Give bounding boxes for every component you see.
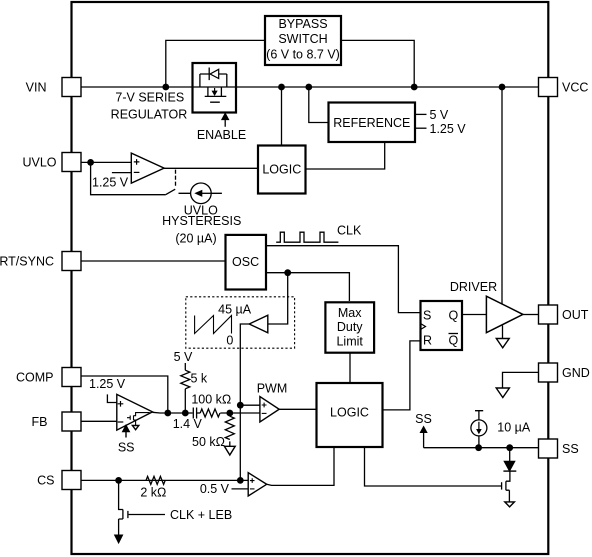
wire buffer output down to comparators: [240, 324, 249, 480]
svg-text:OSC: OSC: [232, 255, 259, 269]
pin OUT: [539, 305, 589, 324]
node SS-source: [475, 444, 482, 451]
svg-text:UVLO: UVLO: [22, 156, 56, 170]
driver amp: [486, 296, 523, 333]
error amplifier U3: [117, 394, 153, 430]
wire PWM output to logic: [279, 408, 316, 410]
svg-text:BYPASS: BYPASS: [278, 17, 327, 31]
sawtooth waveform: [195, 316, 232, 334]
wire 100k to PWM minus: [220, 412, 260, 414]
svg-text:5 V: 5 V: [174, 350, 193, 364]
svg-text:7-V SERIES: 7-V SERIES: [115, 91, 184, 105]
IC boundary: [72, 2, 549, 554]
svg-text:0: 0: [226, 333, 233, 347]
svg-text:ENABLE: ENABLE: [197, 128, 246, 142]
svg-text:LOGIC: LOGIC: [262, 163, 301, 177]
uvlo comparator U2: [131, 153, 164, 183]
ENABLE arrow: [222, 114, 228, 127]
svg-text:R: R: [423, 334, 432, 348]
SS arrow up: [421, 427, 427, 448]
wire flip-flop R input from logic: [383, 341, 421, 410]
node COMP join: [164, 410, 171, 417]
wire logic to SS discharge gate: [365, 447, 502, 486]
wire rail down to logic top: [281, 87, 283, 146]
wire UVLO pin to comparator: [81, 161, 131, 163]
compensation capacitor: [193, 408, 196, 419]
wire Q to driver: [462, 314, 486, 316]
svg-text:HYSTERESIS: HYSTERESIS: [162, 214, 241, 228]
dashed ramp-generator box: [186, 297, 295, 348]
wire GND pin to ground: [503, 372, 539, 388]
svg-text:Q: Q: [449, 334, 459, 348]
SS discharge mosfet: [502, 471, 510, 502]
chip ground symbol: [496, 388, 509, 398]
svg-text:CLK + LEB: CLK + LEB: [170, 508, 232, 522]
svg-text:1.25 V: 1.25 V: [430, 122, 467, 136]
svg-text:Q: Q: [449, 309, 459, 323]
hysteresis current source circle: [191, 183, 212, 204]
bypass switch block: [265, 16, 341, 65]
wire cap to 100k: [197, 412, 201, 414]
stub 1.25V to UVLO comparator minus: [112, 172, 131, 174]
wire 1.25V to error amp plus: [107, 394, 116, 402]
resistor 5 k: [181, 370, 190, 389]
overcurrent comparator: [248, 473, 267, 496]
svg-text:VCC: VCC: [562, 81, 588, 95]
wire reference bottom to logic right: [306, 142, 385, 169]
node CS-leb: [115, 477, 122, 484]
svg-text:5 V: 5 V: [430, 108, 449, 122]
node ramp-PWM: [237, 402, 244, 409]
wire source to SS line: [478, 436, 480, 448]
pin SS: [539, 439, 579, 458]
clk leb fet gate: [128, 511, 165, 518]
resistor 2 kOhm: [146, 476, 165, 484]
enable pass device internals: [200, 68, 227, 103]
pin RT/SYNC: [0, 252, 81, 271]
SR flip-flop U-FF: [421, 301, 463, 350]
svg-text:SS: SS: [562, 442, 579, 456]
max duty limit block: [325, 302, 374, 352]
resistor 100 kOhm: [200, 409, 220, 417]
SS current source 10uA: [471, 420, 487, 436]
wire 5V to 5k resistor: [184, 363, 186, 370]
svg-text:SS: SS: [415, 412, 432, 426]
svg-text:PWM: PWM: [257, 382, 288, 396]
svg-text:RT/SYNC: RT/SYNC: [0, 255, 54, 269]
oscillator block OSC: [226, 235, 267, 290]
wire RT/SYNC to OSC: [81, 260, 226, 262]
pin CS: [37, 471, 81, 490]
wire uvlo comparator output to logic: [164, 167, 258, 169]
wire CS node down to leb fet: [119, 480, 123, 536]
svg-text:Duty: Duty: [337, 320, 363, 334]
wire VIN rail to VCC: [81, 86, 539, 88]
SS clamp transistor on error amp: [127, 413, 150, 430]
wire VCC rail down to driver: [501, 87, 503, 305]
wire UVLO node to hysteresis switch: [91, 162, 166, 194]
svg-text:S: S: [423, 309, 431, 323]
svg-text:OUT: OUT: [562, 308, 589, 322]
svg-text:REFERENCE: REFERENCE: [333, 116, 410, 130]
svg-text:2 kΩ: 2 kΩ: [140, 486, 166, 500]
svg-text:Max: Max: [338, 306, 362, 320]
hysteresis current source stubs: [179, 192, 222, 194]
hysteresis switch blade: [166, 189, 175, 194]
wire error amp output line: [153, 411, 193, 414]
text UVLO HYSTERESIS (20 uA): [162, 204, 241, 246]
svg-text:Limit: Limit: [336, 334, 363, 348]
node SS-diode: [506, 444, 513, 451]
svg-text:VIN: VIN: [26, 81, 47, 95]
svg-text:5 k: 5 k: [191, 372, 208, 386]
SS fet ground: [505, 502, 515, 507]
ground below 50k: [224, 446, 235, 455]
node rail-bypass-right: [411, 84, 418, 91]
node rail-driver: [499, 84, 506, 91]
driver ground: [496, 339, 509, 348]
svg-text:50 kΩ: 50 kΩ: [192, 435, 225, 449]
SS discharge diode: [503, 448, 516, 471]
wire max duty to logic: [349, 353, 351, 383]
pin COMP: [16, 368, 81, 387]
wire OC comparator to logic bottom: [267, 447, 334, 485]
ramp buffer amp: [249, 315, 268, 333]
reference 5V tick: [415, 113, 427, 115]
svg-text:CLK: CLK: [337, 224, 362, 238]
svg-text:FB: FB: [32, 415, 48, 429]
wire OSC ramp out to max duty: [266, 273, 349, 301]
clk waveform: [276, 232, 338, 242]
svg-text:COMP: COMP: [16, 371, 54, 385]
node OSC ramp: [284, 269, 291, 276]
wire FB to error amp minus: [81, 420, 117, 422]
reference 1.25V tick: [415, 127, 427, 129]
resistor 50 kOhm: [225, 413, 234, 446]
wire ramp to PWM plus: [240, 404, 260, 406]
driver ground stub: [502, 326, 504, 339]
SS current source T bar: [475, 411, 483, 420]
pin VIN: [26, 78, 81, 97]
logic block (top): [258, 146, 306, 194]
stub 0.5V to OC comparator minus: [232, 488, 249, 490]
wire rail down to reference: [309, 87, 329, 123]
text 7-V SERIES REGULATOR: [111, 91, 188, 122]
svg-text:10 µA: 10 µA: [497, 421, 531, 435]
svg-text:1.25 V: 1.25 V: [92, 176, 129, 190]
wire CS pin to OC comparator: [81, 479, 248, 481]
svg-text:(20 µA): (20 µA): [175, 231, 216, 245]
svg-text:1.4 V: 1.4 V: [173, 417, 203, 431]
wire OSC clk to flip-flop S: [266, 246, 421, 313]
node 5k join: [182, 410, 189, 417]
arrow to internal ground: [115, 535, 123, 543]
wire SS line to SS pin: [424, 447, 539, 449]
node UVLO input: [87, 159, 94, 166]
enable pass-device box: [193, 63, 237, 113]
node rail-logic: [278, 84, 285, 91]
node rail-reference: [305, 84, 312, 91]
wire 5k to comp node: [184, 389, 186, 413]
svg-text:0.5 V: 0.5 V: [200, 482, 230, 496]
svg-text:GND: GND: [562, 366, 590, 380]
node 50k join: [226, 410, 233, 417]
svg-text:45 µA: 45 µA: [218, 302, 252, 316]
svg-text:CS: CS: [37, 474, 54, 488]
dashed control line to switch: [175, 170, 177, 187]
wire bypass branch right: [341, 40, 414, 87]
wire COMP pin to node: [81, 376, 168, 413]
svg-text:1.25 V: 1.25 V: [89, 377, 126, 391]
node VIN-bypass: [162, 84, 169, 91]
svg-text:(6 V to 8.7 V): (6 V to 8.7 V): [266, 48, 340, 62]
pwm comparator: [260, 397, 279, 422]
svg-text:SWITCH: SWITCH: [278, 32, 327, 46]
svg-text:LOGIC: LOGIC: [330, 406, 369, 420]
wire ramp node down to buffer: [268, 273, 288, 324]
svg-text:DRIVER: DRIVER: [450, 280, 497, 294]
svg-text:REGULATOR: REGULATOR: [111, 108, 188, 122]
pin FB: [32, 412, 81, 431]
node CS-ramp: [237, 477, 244, 484]
logic block (bottom): [317, 383, 383, 447]
svg-text:100 kΩ: 100 kΩ: [191, 393, 231, 407]
wire bypass branch left: [166, 40, 265, 87]
pin GND: [539, 363, 590, 382]
svg-text:SS: SS: [118, 441, 135, 455]
reference block: [329, 103, 416, 143]
pin UVLO: [22, 153, 81, 172]
wire driver to OUT: [523, 314, 539, 316]
pin VCC: [539, 78, 589, 97]
SS arrow into error amp: [123, 426, 129, 438]
